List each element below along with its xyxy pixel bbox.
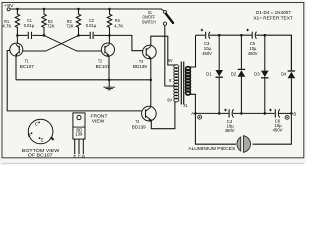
wire cross coupling to T2 base	[44, 35, 102, 51]
wire cross coupling to T1 base	[23, 35, 79, 51]
border frame	[2, 3, 304, 164]
transistor T2 BC107	[96, 35, 115, 79]
svg-text:T4: T4	[135, 119, 139, 125]
svg-text:0.01µ: 0.01µ	[24, 23, 35, 29]
svg-text:R4: R4	[115, 18, 120, 24]
svg-text:ALUMINIUM PIECES: ALUMINIUM PIECES	[188, 146, 235, 151]
wire T4 emitter to primary bottom	[151, 102, 175, 129]
svg-text:72K: 72K	[66, 23, 74, 29]
wire T2 collector to T3 base	[110, 35, 143, 50]
note D1-D4 X1	[253, 10, 293, 20]
svg-text:4.7K: 4.7K	[114, 23, 124, 29]
svg-text:450V: 450V	[248, 51, 258, 56]
wire multiplier top row	[196, 34, 292, 70]
diode D4	[281, 35, 295, 113]
wire secondary bottom lead	[189, 94, 196, 113]
svg-text:SWITCH: SWITCH	[142, 19, 156, 25]
wire ground rail	[16, 79, 152, 82]
resistor R4	[107, 9, 124, 35]
svg-text:VIEW: VIEW	[92, 119, 105, 124]
svg-text:72K: 72K	[47, 23, 55, 29]
svg-text:A: A	[191, 111, 194, 116]
wire T1 collector to T4 base	[7, 51, 141, 111]
capacitor C1	[16, 18, 45, 39]
wire top rail	[10, 8, 164, 11]
svg-text:D2: D2	[231, 72, 237, 77]
node +9V terminal	[4, 3, 14, 11]
svg-text:T2: T2	[98, 59, 102, 65]
transformer X1	[167, 58, 190, 108]
svg-text:0: 0	[169, 78, 172, 83]
BC107 bottom view	[22, 119, 60, 158]
svg-text:D1: D1	[206, 72, 212, 77]
svg-text:E: E	[41, 138, 44, 143]
diode D3	[254, 35, 268, 113]
switch S1	[142, 10, 173, 25]
svg-text:9V: 9V	[167, 98, 172, 103]
capacitor C2	[77, 18, 111, 39]
transistor T4 BD139	[132, 106, 156, 130]
capacitor C6	[269, 109, 282, 133]
wire secondary top lead	[189, 35, 196, 67]
svg-text:D4: D4	[281, 72, 287, 77]
transistor T3 BD139	[133, 45, 156, 70]
svg-text:OF BC107: OF BC107	[28, 153, 54, 158]
svg-text:0.01µ: 0.01µ	[86, 23, 97, 29]
capacitor C4	[224, 109, 234, 133]
wire bottom loop B side	[253, 113, 292, 144]
svg-text:T1: T1	[25, 59, 29, 65]
svg-text:C: C	[35, 121, 38, 126]
resistor R2	[42, 9, 55, 35]
wire bottom loop A side	[195, 113, 236, 144]
svg-text:BC107: BC107	[20, 64, 34, 70]
resistor R3	[66, 9, 81, 35]
transistor T1 BC107	[10, 35, 34, 79]
capacitor C5	[246, 29, 257, 56]
svg-text:450V: 450V	[273, 128, 283, 133]
svg-text:B: B	[82, 154, 85, 159]
ground	[104, 80, 115, 90]
capacitor C3	[201, 29, 212, 56]
svg-text:X1= REFER TEXT: X1= REFER TEXT	[253, 15, 293, 20]
svg-text:450V: 450V	[202, 51, 212, 56]
svg-text:BD139: BD139	[133, 64, 147, 70]
svg-text:FRONT: FRONT	[91, 113, 109, 118]
svg-text:4.7K: 4.7K	[2, 23, 12, 29]
aluminium pieces electrodes	[188, 136, 250, 153]
wire multiplier middle row	[194, 112, 293, 115]
wire T3 collector to primary top	[151, 36, 176, 65]
BD139 front view	[73, 113, 108, 159]
svg-text:T3: T3	[139, 59, 143, 65]
svg-text:450V: 450V	[225, 128, 235, 133]
svg-text:BC107: BC107	[96, 64, 110, 70]
wire T3 emitter to T4 collector	[150, 58, 152, 106]
svg-text:E: E	[74, 154, 77, 159]
svg-text:9V: 9V	[168, 58, 173, 63]
svg-text:BD139: BD139	[132, 124, 146, 130]
svg-text:C: C	[78, 154, 81, 159]
svg-text:D3: D3	[254, 72, 260, 77]
svg-text:139: 139	[75, 132, 83, 137]
svg-text:D1-D4 = 1N4007: D1-D4 = 1N4007	[256, 10, 291, 15]
svg-text:+9V: +9V	[4, 3, 14, 9]
node B	[285, 112, 296, 120]
resistor R1	[2, 9, 19, 35]
node A	[191, 111, 201, 119]
diode D2	[231, 35, 245, 113]
svg-text:X1: X1	[183, 103, 188, 108]
diode D1	[206, 35, 223, 113]
wire switch to center tap	[165, 25, 176, 86]
svg-text:B: B	[293, 112, 296, 117]
svg-text:B: B	[28, 133, 31, 138]
